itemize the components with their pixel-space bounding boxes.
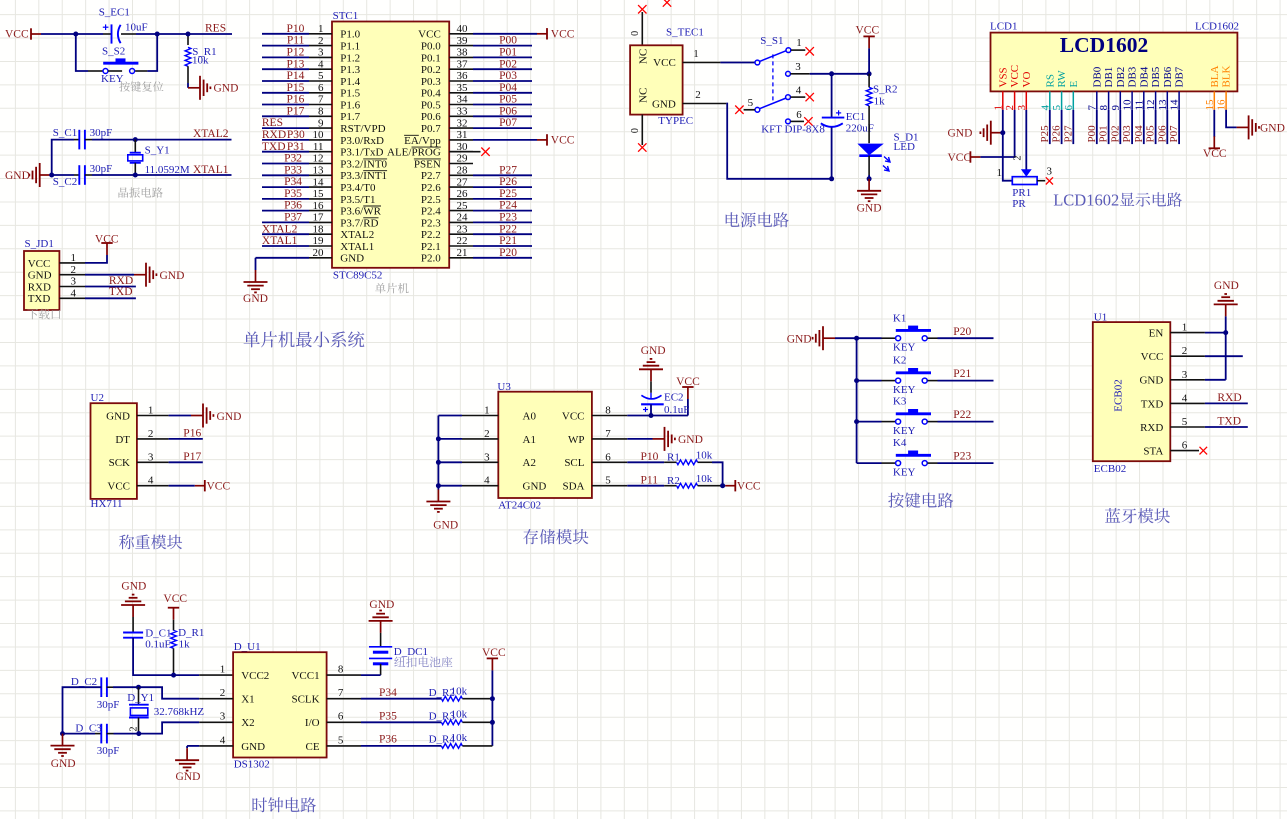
value 10k (D_R3) [451, 709, 468, 721]
svg-text:P04: P04 [1133, 125, 1145, 143]
capacitor S_C1 30pF [79, 130, 135, 150]
svg-text:P3.7/RD: P3.7/RD [340, 217, 378, 229]
svg-text:P04: P04 [499, 82, 517, 94]
svg-text:ECB02: ECB02 [1094, 463, 1126, 475]
designator S_JD1 [25, 238, 54, 250]
svg-text:5: 5 [1182, 416, 1188, 428]
wire P11 to R2 [627, 485, 676, 487]
wires P32-P37 to pins 12-17 [262, 164, 309, 223]
node junction EC2 [649, 413, 654, 418]
svg-text:4: 4 [220, 734, 226, 746]
node junction D_R2/VCC [490, 696, 495, 701]
svg-text:P10: P10 [641, 451, 659, 463]
svg-text:P23: P23 [953, 451, 971, 463]
S_TEC1 pin 1 lead [683, 48, 721, 63]
svg-text:7: 7 [1086, 105, 1098, 111]
designator U2 [91, 392, 104, 404]
svg-text:SCLK: SCLK [291, 694, 319, 706]
wire TEC1 VCC to switch [720, 62, 755, 64]
no-ERC cross TEC1 top shield [638, 5, 646, 13]
svg-text:ECB02: ECB02 [1113, 379, 1125, 411]
wire K4 to P23 [928, 462, 994, 464]
svg-text:VCC: VCC [551, 29, 575, 41]
svg-text:P02: P02 [499, 58, 517, 70]
designator D_R2 [429, 687, 455, 699]
svg-text:P12: P12 [286, 47, 304, 59]
svg-text:GND: GND [5, 170, 30, 182]
svg-text:EA/Vpp: EA/Vpp [404, 135, 441, 147]
push button K2 [896, 368, 931, 383]
net labels TXD P31 [262, 141, 305, 153]
wire R1 to VCC corner [698, 462, 723, 485]
svg-text:WP: WP [568, 434, 585, 446]
node junction XTAL2 [133, 137, 138, 142]
svg-text:DB1: DB1 [1103, 67, 1115, 88]
U3 left pin leads [462, 416, 498, 486]
svg-text:S_S2: S_S2 [102, 46, 125, 58]
wire GND pin 20 [256, 258, 310, 270]
net labels P00-P07 [499, 35, 517, 130]
net label P23 [953, 451, 971, 463]
svg-text:X2: X2 [241, 717, 254, 729]
node junction GND rail [436, 483, 441, 488]
svg-text:RST/VPD: RST/VPD [340, 123, 385, 135]
svg-text:P30: P30 [287, 129, 305, 141]
svg-text:P2.2: P2.2 [421, 229, 441, 241]
S_S1 pin 6 lead and cross [790, 109, 812, 126]
svg-text:8: 8 [605, 405, 611, 417]
svg-text:P34: P34 [379, 687, 397, 699]
ground GND (WP) [653, 427, 703, 451]
caption 按键电路 [888, 493, 953, 508]
svg-text:P21: P21 [499, 235, 517, 247]
power port VCC (U3) [676, 376, 700, 399]
designator K2 [893, 355, 906, 367]
svg-text:5: 5 [338, 734, 344, 746]
S_JD1 pin 2 wire to GND [59, 274, 134, 276]
svg-text:RES: RES [262, 117, 283, 129]
svg-text:P1.1: P1.1 [340, 41, 360, 53]
svg-text:5: 5 [605, 475, 611, 487]
svg-text:GND: GND [176, 771, 201, 783]
LCD1602 rotated pin numbers 1-16 [992, 99, 1227, 111]
node junction rail left [829, 71, 834, 76]
svg-text:P2.1: P2.1 [421, 241, 441, 253]
label KEY (K4) [893, 466, 916, 478]
svg-text:TXD: TXD [1217, 416, 1241, 428]
label KEY (K1) [893, 341, 916, 353]
S_JD1 pin 3 wire RXD [59, 286, 135, 288]
value 10k (R2) [696, 473, 713, 485]
svg-text:2: 2 [1013, 156, 1024, 161]
U3 left pin names [523, 410, 547, 492]
svg-text:2: 2 [148, 428, 154, 440]
value 0.1uF (D_C1) [145, 638, 170, 650]
PR1 pin number 1 [997, 167, 1003, 179]
wires P00-P07 pins 39-32 [473, 46, 532, 129]
designator S_C2 [53, 176, 77, 188]
wire RES to pin 9 [262, 127, 309, 129]
designator U1 [1094, 312, 1107, 324]
svg-text:I/O: I/O [305, 717, 320, 729]
svg-text:P26: P26 [499, 176, 517, 188]
svg-text:RW: RW [1056, 70, 1068, 88]
svg-text:TYPEC: TYPEC [658, 115, 693, 127]
svg-text:KEY: KEY [893, 341, 916, 353]
svg-text:P2.4: P2.4 [421, 206, 441, 218]
wire D_R4 to VCC [462, 745, 492, 747]
node junction key rail K1 [854, 336, 859, 341]
value PR [1012, 198, 1026, 210]
wire LCD pin2 to VCC [980, 110, 1014, 157]
svg-text:4: 4 [484, 475, 490, 487]
svg-text:P05: P05 [1145, 125, 1157, 143]
svg-text:P0.5: P0.5 [421, 99, 441, 111]
svg-text:P1.6: P1.6 [340, 99, 360, 111]
capacitor S_EC1 10uF [103, 24, 157, 43]
svg-text:P06: P06 [1156, 125, 1168, 143]
svg-text:1: 1 [148, 405, 154, 417]
resistor D_R4 10k [441, 744, 462, 749]
S_S1 pin 5 cross and lead [735, 97, 755, 114]
ground GND (U2) [191, 404, 241, 428]
svg-text:P16: P16 [183, 428, 201, 440]
svg-text:1: 1 [997, 167, 1003, 179]
svg-text:VCC: VCC [737, 480, 761, 492]
wire U3 pin8 VCC [627, 399, 688, 416]
power port VCC (pull-ups) [725, 480, 761, 492]
svg-text:P36: P36 [284, 200, 302, 212]
designator R2 [667, 475, 680, 487]
svg-text:7: 7 [338, 687, 344, 699]
wires LCD pins 4-14 stubs down [1050, 110, 1179, 144]
svg-text:P3.4/T0: P3.4/T0 [340, 182, 376, 194]
caption 蓝牙模块 [1105, 508, 1170, 523]
svg-text:KEY: KEY [893, 425, 916, 437]
svg-text:P1.7: P1.7 [340, 111, 360, 123]
svg-text:EC1: EC1 [846, 111, 866, 123]
svg-text:2: 2 [1004, 105, 1016, 111]
svg-text:STC89C52: STC89C52 [333, 269, 383, 281]
net labels P10-P17 [286, 23, 304, 118]
svg-text:3: 3 [1047, 166, 1053, 178]
power port VCC (U2) [195, 480, 231, 493]
designator D_Y1 [127, 692, 154, 704]
wire D_U1 pin5 P36 to D_R4 [327, 745, 442, 747]
designator S_R2 [873, 84, 897, 96]
svg-text:KEY: KEY [893, 466, 916, 478]
node junction A1 rail [436, 436, 441, 441]
svg-text:P03: P03 [499, 70, 517, 82]
designator S_EC1 [99, 6, 130, 18]
designator S_D1 [894, 132, 919, 144]
net label XTAL1 [193, 164, 229, 176]
wire K1 to P20 [928, 337, 994, 339]
svg-text:TXD: TXD [109, 286, 133, 298]
node junction X2 [136, 731, 141, 736]
svg-text:S_C1: S_C1 [53, 127, 77, 139]
ground GND (keys) [787, 326, 835, 350]
STC1 right pin names [387, 29, 441, 265]
net label XTAL2 [193, 128, 229, 140]
svg-text:P2.5: P2.5 [421, 194, 441, 206]
svg-text:1: 1 [220, 664, 226, 676]
value 0.1uF (EC2) [664, 404, 689, 416]
wire X2 to D_U1 pin3 [139, 722, 233, 733]
svg-text:10k: 10k [451, 709, 468, 721]
svg-text:P01: P01 [1098, 125, 1110, 142]
svg-text:P01: P01 [499, 47, 517, 59]
svg-text:XTAL1: XTAL1 [193, 164, 229, 176]
svg-text:GND: GND [1260, 122, 1285, 134]
D_U1 right pin numbers 8-5 [338, 664, 344, 747]
power port VCC (clock pull-ups) [482, 647, 506, 670]
wire X1 to D_U1 pin2 [139, 687, 234, 699]
svg-text:RES: RES [205, 22, 226, 34]
capacitor EC2 0.1uF [641, 381, 664, 415]
designator D_C2 [71, 676, 97, 688]
svg-text:S_EC1: S_EC1 [99, 6, 130, 18]
svg-text:30pF: 30pF [97, 699, 120, 711]
net label TXD [109, 286, 133, 298]
svg-text:13: 13 [1157, 99, 1169, 111]
net label XTAL1 (pin 19) [262, 235, 298, 247]
designator K3 [893, 396, 907, 408]
svg-text:10k: 10k [696, 450, 713, 462]
svg-text:10k: 10k [192, 55, 209, 67]
svg-text:30pF: 30pF [90, 127, 113, 139]
node junction right of S_EC1 [155, 32, 160, 37]
svg-text:LCD1: LCD1 [990, 21, 1018, 33]
microcontroller STC1 STC89C52 body [332, 22, 449, 268]
svg-text:GND: GND [217, 411, 242, 423]
svg-text:P0.2: P0.2 [421, 64, 441, 76]
designator comment TYPEC [658, 115, 693, 127]
LCD1602 rotated pin names [997, 65, 1232, 88]
svg-text:VCC: VCC [95, 234, 119, 246]
svg-text:VCC: VCC [107, 481, 130, 493]
svg-text:VCC: VCC [856, 25, 880, 37]
svg-text:BLK: BLK [1221, 65, 1233, 87]
svg-text:P25: P25 [1039, 125, 1051, 143]
svg-text:VCC: VCC [1009, 65, 1021, 88]
capacitor S_C2 30pF [79, 165, 135, 185]
rotated net labels P25 P26 P27 [1039, 125, 1075, 143]
svg-text:P2.6: P2.6 [421, 182, 441, 194]
rotated pin number 0 (top) [630, 31, 641, 36]
S_JD1 pin 4 wire TXD [59, 297, 135, 299]
svg-text:4: 4 [1182, 392, 1188, 404]
svg-text:SCL: SCL [564, 457, 584, 469]
svg-text:D_R1: D_R1 [178, 627, 204, 639]
svg-text:P17: P17 [183, 451, 201, 463]
node junction X1 [136, 685, 141, 690]
svg-text:11.0592M: 11.0592M [145, 164, 190, 176]
svg-text:VCC: VCC [28, 258, 51, 270]
svg-text:DB7: DB7 [1174, 66, 1186, 87]
net label TXD (U1) [1217, 416, 1241, 428]
svg-text:GND: GND [1139, 375, 1163, 387]
designator D_R1 [178, 627, 204, 639]
svg-text:P13: P13 [286, 58, 304, 70]
LCD1602 title [1060, 33, 1148, 57]
svg-text:10: 10 [1122, 99, 1134, 111]
svg-text:P2.7: P2.7 [421, 170, 441, 182]
svg-text:P34: P34 [284, 176, 302, 188]
value 10k (D_R4) [451, 732, 468, 744]
node junction at S_R1 top [186, 32, 191, 37]
wire P16 (U2 pin2) [169, 438, 203, 440]
svg-text:P1.0: P1.0 [340, 29, 360, 41]
power port VCC (power circuit) [856, 25, 880, 49]
crystal S_Y1 11.0592M [128, 140, 143, 175]
node junction LCD VSS/GND [1000, 130, 1005, 135]
resistor S_R2 1k [866, 74, 872, 143]
resistor D_R1 1k [171, 620, 177, 675]
node junction SDA/VCC [720, 483, 725, 488]
module U2 HX711 body [91, 403, 137, 499]
svg-text:P21: P21 [953, 368, 971, 380]
U3 left pin numbers 1-4 [484, 405, 490, 487]
value 30pF (S_C2) [90, 163, 113, 175]
svg-text:30pF: 30pF [97, 745, 120, 757]
value LED [894, 141, 915, 153]
S_S1 pin 4 lead and cross [790, 85, 814, 102]
S_JD1 pin numbers 1-4 [71, 252, 77, 299]
eeprom U3 AT24C02 body [498, 392, 592, 498]
net label P36 [379, 734, 397, 746]
svg-text:XTAL1: XTAL1 [262, 235, 298, 247]
LCD1602 pin stubs [1003, 91, 1226, 109]
svg-text:P22: P22 [499, 223, 517, 235]
svg-text:DB5: DB5 [1150, 66, 1162, 87]
designator D_R4 [429, 734, 456, 746]
designator U3 [497, 381, 511, 393]
D_U1 left pin numbers 1-4 [220, 664, 226, 747]
svg-text:GND: GND [160, 270, 185, 282]
polarity plus EC1 [836, 110, 841, 115]
push button S_S2 [103, 34, 157, 74]
S_JD1 pin 1 wire to VCC [59, 255, 107, 263]
net label RXD (U1) [1217, 392, 1241, 404]
svg-text:P36: P36 [379, 734, 397, 746]
svg-text:RS: RS [1044, 74, 1056, 87]
wire VCC to rail [868, 48, 870, 73]
svg-text:P0.6: P0.6 [421, 111, 441, 123]
power port VCC (S_JD1) [95, 234, 119, 255]
capacitor D_C1 0.1uF [123, 617, 174, 675]
net label P22 [953, 409, 971, 421]
svg-text:9: 9 [1110, 105, 1122, 111]
svg-text:P3.3/INT1: P3.3/INT1 [340, 170, 387, 182]
wire rail to K1 [857, 337, 896, 339]
svg-text:6: 6 [1063, 105, 1075, 111]
svg-text:P1.5: P1.5 [340, 88, 360, 100]
STC1 right pin numbers 40-21 [457, 23, 469, 259]
svg-text:2: 2 [484, 428, 490, 440]
wire D_U1 pin6 P35 to D_R3 [327, 721, 442, 723]
svg-text:P25: P25 [499, 188, 517, 200]
svg-text:GND: GND [369, 599, 394, 611]
svg-text:10k: 10k [696, 473, 713, 485]
STC1 left pin numbers 1-20 [313, 23, 325, 259]
wire D_R3 to VCC [462, 721, 492, 723]
wire U1 pin5 TXD net [1205, 426, 1248, 428]
net labels P27-P20 [499, 164, 517, 259]
wires P27-P20 pins 28-21 [473, 175, 532, 257]
svg-text:S_Y1: S_Y1 [145, 145, 170, 157]
resistor S_R1 10k [185, 47, 191, 88]
D_U1 right pin names [291, 670, 319, 753]
svg-text:16: 16 [1216, 99, 1228, 111]
svg-text:2: 2 [695, 89, 701, 101]
value 30pF (D_C3) [97, 745, 120, 757]
svg-text:VCC: VCC [948, 152, 972, 164]
svg-text:RXD: RXD [109, 275, 133, 287]
svg-text:P11: P11 [287, 35, 305, 47]
svg-text:3: 3 [148, 451, 154, 463]
wire switch pin3 to VCC rail [810, 73, 869, 75]
svg-text:K1: K1 [893, 312, 906, 324]
svg-text:6: 6 [1182, 440, 1188, 452]
svg-text:GND: GND [857, 203, 882, 215]
wire U2 pin1 to GND [169, 415, 191, 417]
svg-text:P22: P22 [953, 409, 971, 421]
capacitor EC1 220uF electrolytic [821, 118, 845, 179]
net labels RXD P30 [262, 129, 305, 141]
net label P17 [183, 451, 201, 463]
U1 pin names [1139, 328, 1163, 458]
label KEY (K2) [893, 384, 916, 396]
label KEY (K3) [893, 425, 916, 437]
wire XTAL2 net [135, 139, 231, 141]
designator S_Y1 [145, 145, 170, 157]
wire XTAL2 to pin 18 [262, 233, 309, 235]
svg-text:P20: P20 [499, 247, 517, 259]
net label P20 [953, 326, 971, 338]
wire U1 pin1 EN [1205, 332, 1226, 334]
node junction D_R3/VCC [490, 720, 495, 725]
svg-text:VCC: VCC [163, 593, 187, 605]
svg-text:S_R2: S_R2 [873, 84, 897, 96]
U1 pin leads [1170, 333, 1205, 451]
net label P11 (SDA) [641, 474, 659, 486]
node junction bottom rail LED [867, 176, 872, 181]
svg-text:LED: LED [894, 141, 915, 153]
wire VCC to S_EC1 and S_S2 [41, 34, 103, 71]
LCD1602 display body [991, 33, 1238, 92]
svg-text:P3.1/TxD: P3.1/TxD [340, 147, 383, 159]
svg-text:GND: GND [787, 333, 812, 345]
svg-text:SCK: SCK [109, 457, 130, 469]
svg-text:2: 2 [220, 687, 226, 699]
no-ERC cross above TEC1 [663, 0, 671, 7]
wire TEC1 GND to bottom rail [726, 104, 831, 179]
svg-text:5: 5 [748, 97, 754, 109]
U2 pin names [106, 410, 130, 492]
svg-text:NC: NC [638, 49, 650, 64]
svg-text:P3.5/T1: P3.5/T1 [340, 194, 375, 206]
ground GND (S_JD1) [134, 263, 184, 287]
svg-text:7: 7 [605, 428, 611, 440]
svg-text:0: 0 [630, 128, 641, 133]
svg-text:XTAL1: XTAL1 [340, 241, 374, 253]
svg-text:P23: P23 [499, 212, 517, 224]
ground GND (D_C1) [121, 580, 146, 617]
wire LCD pin3 VO to pot wiper [1025, 110, 1027, 171]
svg-text:A1: A1 [523, 434, 536, 446]
resistor R2 10k [677, 483, 698, 488]
